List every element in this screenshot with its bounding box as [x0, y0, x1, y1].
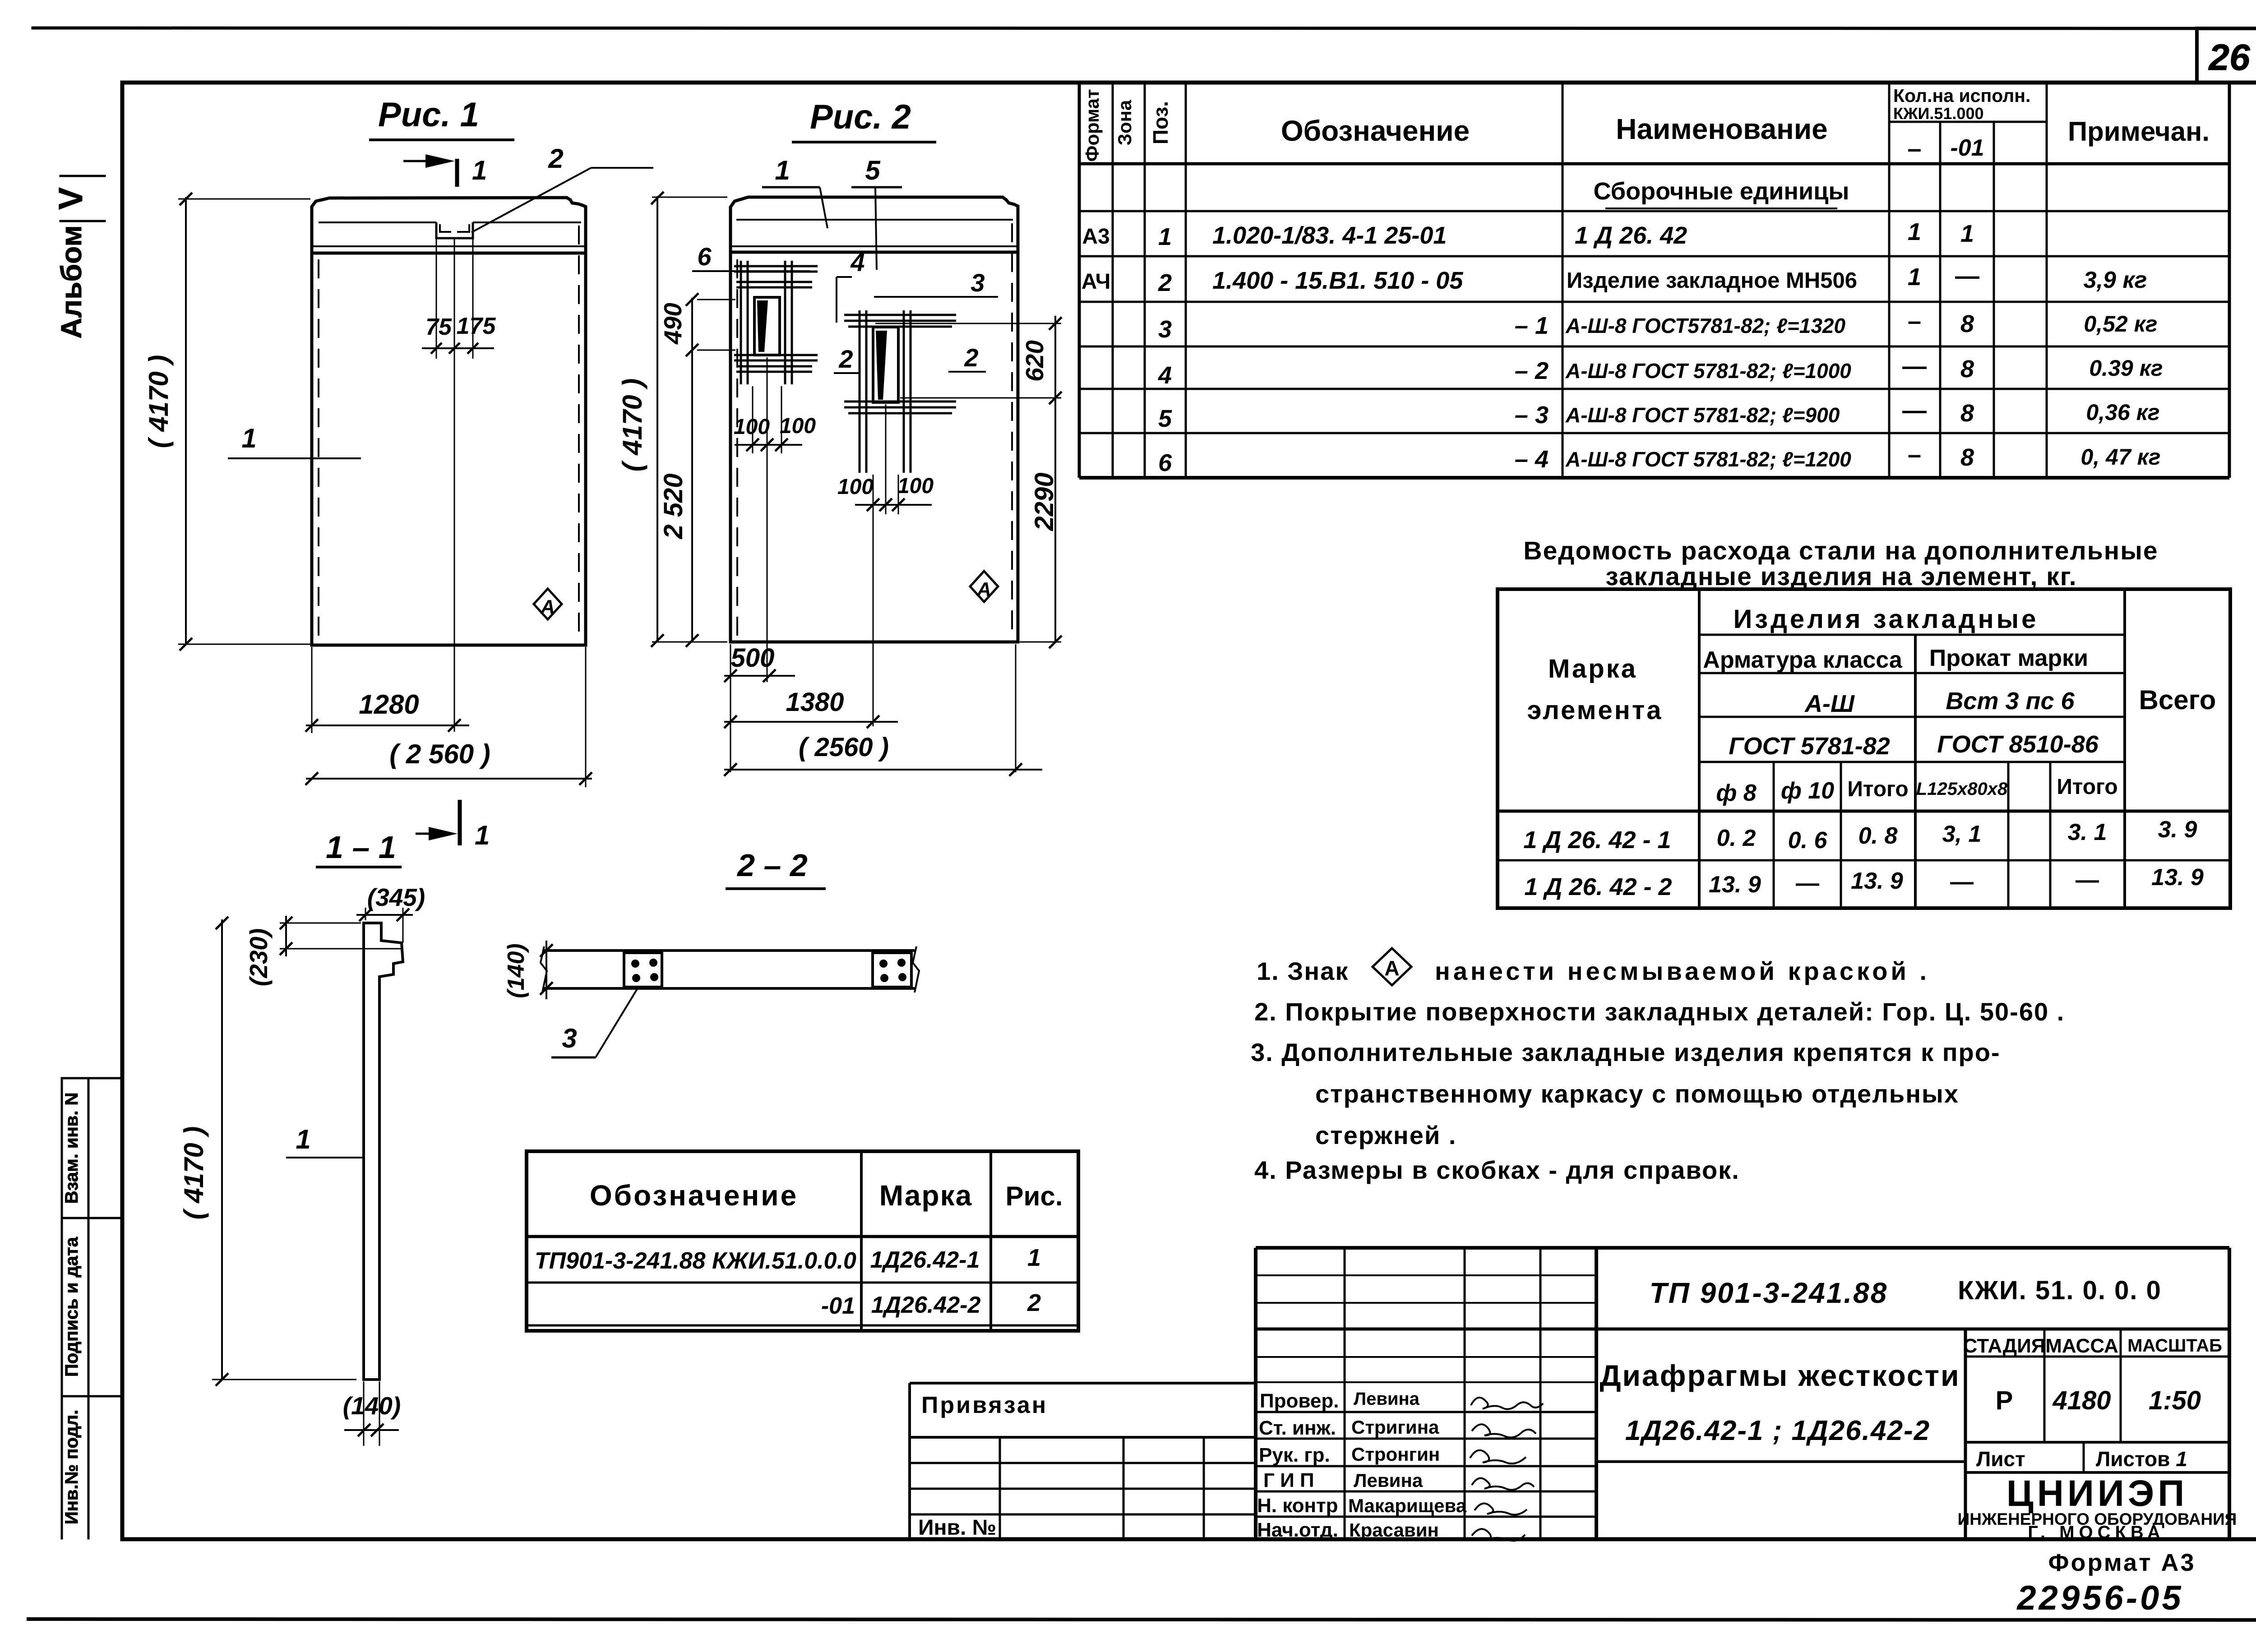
spec table column lines: [1113, 83, 2047, 478]
svg-text:8: 8: [1960, 400, 1974, 427]
massa/masshtab divider: [2120, 1329, 2122, 1442]
svg-text:13. 9: 13. 9: [1851, 868, 1903, 894]
Fig2 dim 100/100 right: [855, 498, 932, 511]
svg-text:Итого: Итого: [1847, 777, 1908, 801]
Fig2 band line thin: [730, 245, 1018, 247]
svg-text:2. Покрытие поверхности закл: 2. Покрытие поверхности закладных детале…: [1254, 997, 2065, 1026]
marks table row 2: [821, 1289, 1041, 1319]
title block main horizontal: [1256, 1328, 2229, 1331]
Fig2 left rebar cage verticals: [741, 261, 792, 384]
svg-text:L125x80x8: L125x80x8: [1916, 779, 2008, 799]
svg-text:490: 490: [659, 303, 687, 345]
svg-text:(140): (140): [343, 1392, 401, 1420]
signature rows labels: [1257, 1389, 1467, 1541]
svg-text:МАСШТАБ: МАСШТАБ: [2127, 1336, 2222, 1356]
svg-text:26: 26: [2208, 37, 2251, 78]
Fig2 dim 1380: [724, 715, 898, 728]
paper top edge line: [33, 28, 2256, 28]
svg-text:закладные изделия на элемен: закладные изделия на элемент, кг.: [1605, 562, 2077, 591]
svg-text:8: 8: [1960, 310, 1974, 337]
svg-text:Красавин: Красавин: [1349, 1519, 1439, 1541]
svg-text:АЧ: АЧ: [1082, 270, 1111, 294]
svg-text:( 4170 ): ( 4170 ): [179, 1126, 209, 1220]
svg-text:2: 2: [1158, 269, 1172, 296]
svg-text:1:50: 1:50: [2149, 1386, 2201, 1415]
svg-text:—: —: [2076, 867, 2099, 893]
svg-text:2 – 2: 2 – 2: [736, 848, 808, 883]
svg-text:Марка: Марка: [879, 1179, 972, 1212]
Fig2 dim 100/100 left: [735, 438, 802, 451]
svg-text:Зона: Зона: [1114, 100, 1135, 145]
Fig1 panel outline: [312, 198, 586, 645]
privyazan grid rows: [910, 1462, 1256, 1464]
svg-text:Обозначение: Обозначение: [1281, 115, 1470, 147]
svg-text:Инв.№ подл.: Инв.№ подл.: [62, 1410, 82, 1524]
svg-text:( 4170 ): ( 4170 ): [617, 378, 647, 472]
paper bottom edge line: [28, 1619, 2256, 1620]
spec row 2: [1082, 263, 2147, 296]
Fig1 top inner line: [319, 221, 581, 223]
Fig2 right rebar cage verticals: [860, 310, 911, 473]
svg-text:1.020-1/83. 4-1 25-01: 1.020-1/83. 4-1 25-01: [1212, 222, 1447, 249]
svg-text:А-Ш-8 ГОСТ 5781-82; ℓ=1200: А-Ш-8 ГОСТ 5781-82; ℓ=1200: [1565, 448, 1851, 471]
Fig2 dim (2560): [724, 644, 1042, 776]
svg-text:Диафрагмы жесткости: Диафрагмы жесткости: [1600, 1359, 1960, 1392]
svg-text:ф 10: ф 10: [1781, 778, 1834, 804]
svg-text:–: –: [1908, 308, 1921, 335]
svg-text:СТАДИЯ: СТАДИЯ: [1963, 1335, 2046, 1357]
sect1-1 dim (230): [280, 916, 401, 956]
title block outer: [1256, 1246, 2229, 1250]
Fig2 top inner line: [736, 219, 1013, 221]
spec row 5: [1158, 397, 2160, 432]
svg-text:3, 1: 3, 1: [1942, 821, 1982, 847]
svg-text:—: —: [1902, 397, 1927, 424]
svg-text:175: 175: [457, 313, 496, 339]
Fig2 dashed edge line left: [736, 259, 738, 640]
svg-text:4: 4: [1158, 362, 1172, 389]
svg-text:Р: Р: [1996, 1386, 2013, 1415]
stadia/massa divider: [2043, 1329, 2046, 1442]
steel table horizontals: [1498, 635, 2230, 860]
svg-text:элемента: элемента: [1527, 696, 1663, 725]
Fig1 leader label 2: [472, 143, 653, 232]
svg-text:–: –: [1907, 134, 1921, 162]
svg-text:Рук. гр.: Рук. гр.: [1259, 1444, 1330, 1466]
Fig2 leader label 4: [837, 248, 865, 323]
stadia header row line: [1965, 1356, 2229, 1358]
svg-text:– 4: – 4: [1515, 446, 1549, 473]
svg-text:0. 2: 0. 2: [1717, 825, 1756, 851]
Fig2 left opening: [754, 297, 780, 355]
svg-text:ф 8: ф 8: [1716, 780, 1756, 806]
svg-text:75: 75: [425, 314, 452, 340]
spec row: Сборочные единицы: [1594, 178, 1849, 208]
privyazan box: [910, 1382, 1256, 1384]
Fig2 title: [792, 98, 936, 142]
svg-text:1Д26.42-1 ; 1Д26.42-2: 1Д26.42-1 ; 1Д26.42-2: [1625, 1415, 1930, 1446]
svg-text:2: 2: [1027, 1289, 1041, 1316]
svg-text:Арматура класса: Арматура класса: [1703, 647, 1903, 673]
svg-text:2: 2: [548, 143, 563, 174]
svg-text:Сборочные единицы: Сборочные единицы: [1594, 178, 1849, 205]
Fig2 leader label 5: [851, 155, 902, 270]
svg-text:( 4170 ): ( 4170 ): [143, 355, 174, 448]
svg-text:1: 1: [775, 155, 790, 185]
svg-text:– 3: – 3: [1515, 401, 1549, 429]
svg-text:ГОСТ 8510-86: ГОСТ 8510-86: [1937, 731, 2099, 758]
svg-text:Провер.: Провер.: [1260, 1390, 1339, 1412]
svg-text:100: 100: [897, 474, 934, 498]
Fig1 dim (4170): [178, 193, 310, 651]
svg-text:2: 2: [838, 345, 853, 373]
marks table horizontals: [527, 1235, 1078, 1238]
svg-text:Инв. №: Инв. №: [918, 1516, 996, 1540]
svg-text:Рис. 1: Рис. 1: [378, 96, 479, 134]
svg-text:5: 5: [865, 155, 881, 185]
spec row 1: [1082, 218, 1974, 250]
sect2-2 left embedded plate: [624, 953, 662, 987]
sect1-1 dim (345): [356, 908, 413, 943]
svg-text:Рис.: Рис.: [1006, 1181, 1063, 1211]
spec table row lines: [1079, 122, 2229, 433]
spec table outer border: [1079, 83, 2229, 478]
svg-text:22956-05: 22956-05: [2016, 1579, 2183, 1617]
signature table columns: [1344, 1248, 1346, 1539]
svg-text:4: 4: [850, 248, 864, 277]
svg-text:1Д26.42-2: 1Д26.42-2: [871, 1292, 981, 1318]
sheet number box 26: [2197, 28, 2256, 83]
svg-text:1280: 1280: [359, 689, 419, 720]
marks table border: [527, 1151, 1078, 1331]
Fig2 dashed edge line right: [1011, 223, 1013, 640]
sect2-2 dim (140): [540, 941, 553, 999]
svg-text:100: 100: [780, 414, 816, 438]
svg-text:–: –: [1908, 441, 1921, 468]
sect2-2 beam outline: [542, 951, 915, 988]
Fig2 position label 2 left: [834, 345, 860, 373]
note 1 diamond A mark: [1373, 948, 1411, 985]
Fig1 dashed edge line left: [318, 259, 319, 641]
Fig1 quality diamond A: [534, 589, 562, 619]
signature table rows upper: [1256, 1275, 1596, 1382]
svg-text:ЦНИИЭП: ЦНИИЭП: [2006, 1473, 2188, 1514]
svg-text:Подпись и дата: Подпись и дата: [62, 1237, 82, 1377]
svg-text:Изделия закладные: Изделия закладные: [1734, 605, 2039, 634]
privyazan grid columns: [999, 1437, 1001, 1539]
svg-text:1Д26.42-1: 1Д26.42-1: [870, 1247, 980, 1273]
Fig2 quality diamond A: [970, 571, 998, 602]
svg-text:Левина: Левина: [1354, 1389, 1420, 1409]
svg-text:Нач.отд.: Нач.отд.: [1257, 1519, 1338, 1541]
svg-text:—: —: [1950, 869, 1974, 895]
svg-text:ГОСТ 5781-82: ГОСТ 5781-82: [1729, 733, 1890, 760]
svg-text:—: —: [1902, 353, 1927, 380]
svg-text:(140): (140): [503, 943, 529, 998]
svg-text:А: А: [976, 578, 991, 600]
spec row 3: [1158, 308, 2158, 343]
svg-text:3: 3: [562, 1023, 577, 1053]
section 1-1 title: [316, 830, 402, 867]
steel data row 2: [1524, 864, 2204, 900]
svg-text:1 Д 26. 42: 1 Д 26. 42: [1575, 222, 1687, 249]
steel data row 1: [1523, 817, 2197, 854]
Fig1 dim (2560): [305, 647, 592, 787]
svg-text:0. 6: 0. 6: [1788, 827, 1828, 854]
svg-text:КЖИ.51.000: КЖИ.51.000: [1893, 104, 1984, 123]
svg-text:1380: 1380: [786, 688, 844, 717]
svg-text:стержней .: стержней .: [1315, 1121, 1456, 1149]
svg-text:1: 1: [1027, 1244, 1041, 1271]
svg-text:3: 3: [1158, 316, 1172, 343]
svg-text:0,36 кг: 0,36 кг: [2086, 400, 2159, 425]
sect1-1 dim (140): [344, 1381, 399, 1446]
svg-text:13. 9: 13. 9: [2151, 864, 2204, 891]
Fig2 dim 620/2290 extension lines: [875, 323, 1061, 398]
Fig2 right rebar cage horizontals: [844, 315, 956, 413]
Fig2 leader label 3: [874, 268, 998, 297]
svg-text:Стригина: Стригина: [1351, 1417, 1439, 1438]
svg-text:Формат А3: Формат А3: [2048, 1549, 2196, 1576]
steel table verticals: [1699, 589, 2125, 908]
svg-text:1: 1: [241, 423, 256, 453]
Fig1 band line thin: [312, 245, 586, 247]
svg-text:1: 1: [1158, 223, 1172, 250]
svg-text:1: 1: [1908, 218, 1921, 245]
Fig2 left opening extension lines: [753, 357, 781, 682]
svg-text:Г И П: Г И П: [1263, 1469, 1314, 1491]
svg-text:Н. контр: Н. контр: [1257, 1495, 1338, 1517]
svg-text:Итого: Итого: [2057, 775, 2117, 799]
svg-text:3. 1: 3. 1: [2068, 819, 2107, 845]
svg-text:Всего: Всего: [2139, 685, 2216, 715]
svg-text:ТП901-3-241.88 КЖИ.51.0.0.0: ТП901-3-241.88 КЖИ.51.0.0.0: [535, 1248, 856, 1274]
steel table outer border: [1498, 589, 2230, 908]
svg-text:Примечан.: Примечан.: [2068, 116, 2210, 147]
svg-text:( 2 560 ): ( 2 560 ): [389, 739, 490, 769]
signature squiggles: [1470, 1398, 1543, 1541]
marks table verticals: [860, 1151, 863, 1331]
svg-text:(230): (230): [245, 928, 273, 986]
Fig1 embed notch: [436, 222, 473, 238]
Fig2 leader label 6: [692, 242, 810, 271]
Fig1 dim 1280: [305, 647, 469, 733]
sect1-1 wall profile: [364, 923, 403, 1380]
Fig2 right opening extension lines: [873, 404, 898, 726]
svg-text:Поз.: Поз.: [1149, 101, 1172, 144]
svg-text:нанести несмываемой краской: нанести несмываемой краской .: [1435, 957, 1930, 985]
list row line: [1965, 1441, 2229, 1444]
svg-text:1: 1: [475, 820, 490, 850]
Fig1 dim 75/175: [422, 238, 494, 359]
svg-text:620: 620: [1021, 340, 1049, 382]
svg-text:Макарищева: Макарищева: [1348, 1495, 1467, 1516]
sect2-2 leader label 3: [551, 986, 639, 1057]
stadia column divider: [1964, 1329, 1967, 1539]
svg-text:МАССА: МАССА: [2045, 1335, 2118, 1357]
svg-text:( 2560 ): ( 2560 ): [799, 733, 889, 762]
signature table rows lower: [1256, 1412, 1596, 1517]
Fig2 position label 2 right: [948, 343, 986, 372]
svg-text:Ведомость расхода стали на доп: Ведомость расхода стали на дополнительны…: [1523, 536, 2158, 565]
svg-text:2: 2: [964, 343, 978, 372]
svg-text:А-Ш: А-Ш: [1804, 690, 1855, 717]
Fig1 bottom section mark 1: [416, 800, 460, 845]
sect1-1 leader label 1: [286, 1124, 364, 1158]
Fig2 panel outline: [730, 197, 1018, 642]
svg-text:Наименование: Наименование: [1616, 113, 1828, 145]
spec row 4: [1158, 353, 2163, 389]
svg-text:Обозначение: Обозначение: [590, 1179, 798, 1212]
Fig2 dim (4170): [651, 192, 727, 647]
svg-text:Вст 3 пс 6: Вст 3 пс 6: [1946, 688, 2075, 715]
svg-text:4180: 4180: [2052, 1386, 2111, 1415]
Fig1 leader label 1: [228, 423, 361, 458]
svg-text:Левина: Левина: [1354, 1470, 1423, 1491]
svg-text:2290: 2290: [1030, 472, 1059, 531]
svg-text:Формат: Формат: [1082, 89, 1103, 162]
svg-text:странственному каркасу с по: странственному каркасу с помощью отдельн…: [1315, 1080, 1959, 1108]
svg-text:0.39 кг: 0.39 кг: [2089, 355, 2163, 381]
Fig1 band line thick: [312, 252, 586, 255]
svg-text:2 520: 2 520: [659, 473, 688, 539]
sect2-2 right break mark: [913, 946, 919, 992]
svg-text:Прокат марки: Прокат марки: [1929, 645, 2088, 671]
svg-text:– 1: – 1: [1515, 312, 1549, 339]
sect1-1 dim (4170): [212, 917, 356, 1386]
Fig2 left opening wedge: [757, 300, 768, 352]
svg-text:А: А: [540, 596, 555, 618]
svg-text:ТП 901-3-241.88: ТП 901-3-241.88: [1650, 1277, 1888, 1309]
svg-text:А-Ш-8 ГОСТ 5781-82; ℓ=900: А-Ш-8 ГОСТ 5781-82; ℓ=900: [1565, 403, 1840, 427]
svg-text:1 Д 26. 42 - 1: 1 Д 26. 42 - 1: [1523, 826, 1671, 854]
svg-text:0,52 кг: 0,52 кг: [2084, 311, 2157, 337]
Fig2 right opening wedge: [876, 331, 887, 400]
svg-text:8: 8: [1960, 444, 1974, 471]
sect2-2 right embedded plate: [873, 953, 911, 987]
svg-text:Привязан: Привязан: [921, 1392, 1048, 1418]
Fig2 dim 620/2290 line: [1020, 316, 1062, 648]
svg-text:1: 1: [1960, 220, 1974, 247]
spec row 6: [1158, 441, 2161, 476]
Fig2 left rebar cage horizontals: [734, 266, 818, 372]
svg-text:8: 8: [1960, 355, 1974, 383]
name box bottom: [1596, 1460, 1965, 1463]
Fig2 right opening: [873, 327, 898, 402]
svg-text:А: А: [1384, 956, 1399, 980]
svg-text:А-Ш-8 ГОСТ 5781-82; ℓ=1000: А-Ш-8 ГОСТ 5781-82; ℓ=1000: [1565, 359, 1851, 383]
Fig2 band line thick: [730, 251, 1018, 254]
svg-text:V: V: [52, 187, 89, 209]
svg-text:Ст. инж.: Ст. инж.: [1259, 1417, 1336, 1439]
svg-text:5: 5: [1158, 405, 1172, 432]
svg-text:100: 100: [837, 475, 874, 499]
left sidebar boxes: [62, 1078, 122, 1538]
Fig2 leader label 1: [762, 155, 828, 228]
Fig2 dim 490/2520 line: [686, 293, 735, 647]
svg-text:А3: А3: [1082, 225, 1110, 249]
Fig1 dashed edge line right: [578, 226, 580, 641]
svg-text:3,9 кг: 3,9 кг: [2084, 267, 2147, 293]
svg-text:0, 47 кг: 0, 47 кг: [2080, 444, 2160, 470]
svg-text:(345): (345): [367, 883, 425, 911]
Fig1 center line: [454, 238, 455, 732]
svg-text:100: 100: [734, 415, 770, 439]
Fig1 embedded item MN506: [440, 224, 469, 232]
svg-text:А-Ш-8 ГОСТ5781-82; ℓ=1320: А-Ш-8 ГОСТ5781-82; ℓ=1320: [1565, 314, 1845, 337]
svg-text:1 – 1: 1 – 1: [326, 830, 396, 865]
svg-text:1 Д 26. 42 - 2: 1 Д 26. 42 - 2: [1524, 873, 1672, 900]
svg-text:Стронгин: Стронгин: [1351, 1444, 1440, 1465]
Fig2 dim 500: [724, 644, 795, 772]
svg-text:—: —: [1796, 870, 1819, 896]
svg-text:Лист: Лист: [1976, 1447, 2025, 1471]
svg-text:3: 3: [971, 268, 985, 297]
svg-text:1: 1: [472, 155, 487, 185]
svg-text:Листов 1: Листов 1: [2096, 1447, 2187, 1471]
svg-text:Рис. 2: Рис. 2: [810, 98, 911, 136]
svg-text:-01: -01: [821, 1293, 855, 1319]
svg-text:13. 9: 13. 9: [1709, 872, 1761, 898]
svg-text:Взам. инв. N: Взам. инв. N: [62, 1093, 82, 1204]
list/listov divider: [2083, 1442, 2085, 1472]
svg-text:500: 500: [731, 643, 775, 673]
svg-text:Марка: Марка: [1548, 654, 1637, 683]
svg-text:Альбом: Альбом: [55, 225, 88, 338]
svg-text:0. 8: 0. 8: [1858, 823, 1898, 849]
svg-text:—: —: [1955, 263, 1979, 290]
svg-text:Г. МОСКВА: Г. МОСКВА: [2028, 1523, 2164, 1542]
svg-text:1: 1: [1908, 263, 1921, 291]
album V rotated caption: [52, 176, 105, 339]
svg-text:4. Размеры в скобках - для: 4. Размеры в скобках - для справок.: [1254, 1156, 1740, 1184]
Fig1 top section mark 1: [403, 154, 457, 187]
svg-text:1. Знак: 1. Знак: [1257, 957, 1349, 985]
svg-text:6: 6: [1158, 449, 1172, 476]
marks table row 1: [535, 1244, 1041, 1274]
svg-text:6: 6: [697, 242, 712, 271]
svg-text:3. 9: 3. 9: [2158, 817, 2197, 843]
svg-text:– 2: – 2: [1515, 357, 1549, 384]
Fig1 title: [369, 96, 514, 140]
svg-text:Изделие закладное МН506: Изделие закладное МН506: [1567, 268, 1857, 293]
svg-text:1.400 - 15.В1. 510 - 05: 1.400 - 15.В1. 510 - 05: [1212, 267, 1463, 294]
svg-text:Кол.на исполн.: Кол.на исполн.: [1893, 85, 2030, 106]
svg-text:КЖИ. 51. 0. 0. 0: КЖИ. 51. 0. 0. 0: [1958, 1276, 2162, 1305]
svg-text:-01: -01: [1950, 135, 1984, 161]
svg-text:1: 1: [296, 1124, 310, 1154]
sect2-2 left break mark: [541, 946, 547, 992]
section 2-2 title: [726, 848, 826, 889]
svg-text:3. Дополнительные закладные: 3. Дополнительные закладные изделия креп…: [1251, 1038, 2001, 1066]
